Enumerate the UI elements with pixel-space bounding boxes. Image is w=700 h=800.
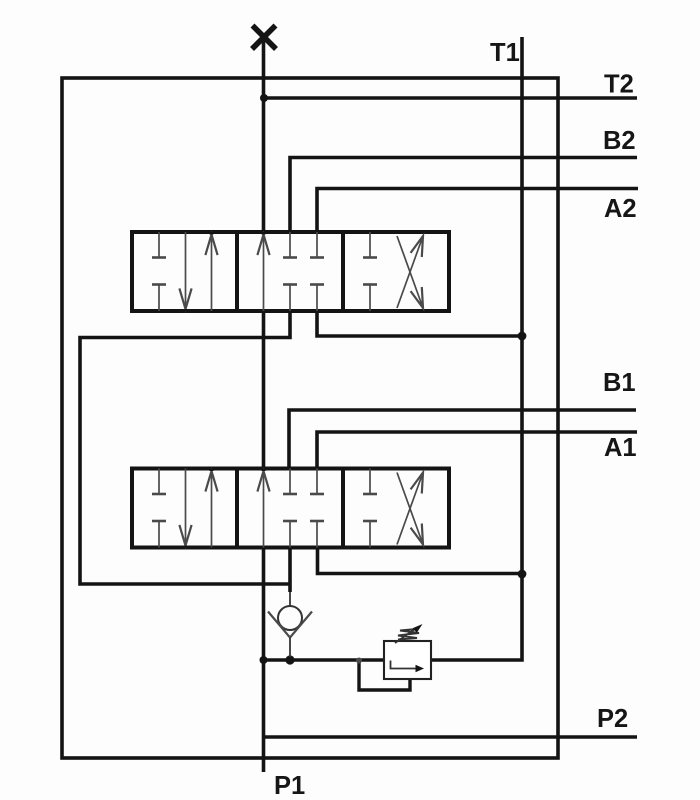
junction node T2 tap on P1 riser: [260, 94, 268, 102]
valve block enclosure boundary: [62, 78, 558, 758]
valve V1 left position up-flow arrow: [211, 235, 213, 312]
valve V1 left position blocked port: [158, 232, 160, 258]
valve V2 left position blocked port: [158, 469, 160, 495]
valve V2 centre position blocked port A: [316, 469, 318, 495]
valve V1 right position cross-flow arrow down: [397, 236, 423, 308]
check valve CV1 inlet stub: [289, 592, 291, 606]
wire T2 line: [264, 96, 637, 100]
valve V2 position divider left: [235, 469, 239, 548]
valve V2 right position blocked port: [369, 469, 371, 495]
valve V2 centre position blocked port B: [289, 469, 291, 495]
svg-text:B1: B1: [603, 369, 636, 397]
valve V2 left position down-flow arrow: [185, 469, 187, 546]
svg-text:B2: B2: [603, 127, 636, 155]
wire relief valve pilot line: [359, 660, 410, 690]
relief valve RV1 internal flow arrow: [391, 661, 417, 669]
svg-text:A2: A2: [604, 195, 637, 223]
junction node check valve outlet: [285, 655, 294, 664]
wire valve V1 port A to T1 junction: [317, 311, 522, 336]
valve V1 left position down-flow arrow: [185, 232, 187, 309]
wire P1 riser lower (valve V2 to P1 port): [262, 548, 266, 773]
valve V1 position divider left: [235, 232, 239, 311]
relief valve RV1 spring: [398, 629, 419, 640]
wire relief valve inlet from P1 riser: [264, 658, 385, 662]
wire P1 riser middle (valve V1 to valve V2): [262, 311, 266, 469]
wire P1 riser upper (X to valve V1): [262, 40, 266, 232]
junction node V2-A carryover on T1 line: [518, 570, 527, 579]
check valve CV1 seat: [268, 612, 312, 638]
valve V1 right position blocked port: [369, 232, 371, 258]
wire carryover loop V1 to V2 (left bypass): [80, 311, 290, 584]
relief valve RV1 adjustment arrow: [395, 627, 418, 643]
svg-text:T1: T1: [490, 39, 520, 67]
relief valve RV1 body: [384, 641, 431, 679]
valve V1 position divider right: [341, 232, 345, 311]
wire A1 line to valve V2: [317, 432, 637, 469]
wire P2 line: [264, 735, 638, 739]
valve V2 centre position open-centre arrow: [263, 471, 265, 548]
valve V2 position divider right: [341, 469, 345, 548]
svg-text:P2: P2: [597, 705, 628, 733]
wire A2 line to valve V1: [317, 189, 638, 233]
junction node relief inlet on P1 riser: [260, 656, 268, 664]
junction node pilot tap: [356, 658, 362, 664]
valve V1 centre position blocked port A: [316, 232, 318, 258]
svg-text:P1: P1: [274, 772, 305, 800]
wire B1 line to valve V2: [289, 410, 636, 469]
check valve CV1 outlet stub: [289, 638, 291, 658]
wire valve V2 port A to T1 junction: [318, 548, 523, 574]
wire T1 line (top port down to relief valve outlet): [432, 37, 522, 660]
svg-text:A1: A1: [604, 434, 637, 462]
plugged carryover port X symbol: [252, 26, 276, 50]
valve V2 right position cross-flow arrow down: [397, 473, 423, 545]
junction node V1-A carryover on T1 line: [518, 332, 527, 341]
check valve CV1 ball: [278, 606, 302, 630]
valve V1 right position cross-flow arrow up: [397, 236, 423, 308]
svg-text:T2: T2: [604, 71, 634, 99]
valve V2 right position cross-flow arrow up: [397, 473, 423, 545]
wire B2 line to valve V1: [290, 158, 637, 233]
directional control valve V1 body: [132, 232, 449, 311]
valve V2 left position up-flow arrow: [211, 471, 213, 548]
valve V1 centre position blocked port B: [289, 232, 291, 258]
directional control valve V2 body: [132, 469, 449, 548]
valve V1 centre position open-centre arrow: [263, 235, 265, 312]
wire valve V2 port B stub to check valve: [288, 548, 292, 593]
